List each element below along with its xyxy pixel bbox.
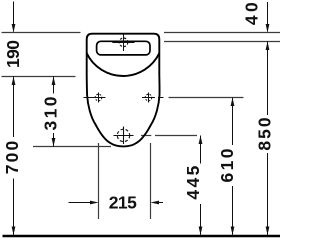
svg-text:190: 190: [3, 40, 23, 68]
dimension 700 (line + arrows + rotated label): [2, 77, 22, 236]
top reference line right: [164, 32, 280, 34]
dimension 190 (top arrow + rotated label): [3, 2, 23, 69]
rim level reference line left (190 below top): [2, 76, 76, 78]
dimension 445 (line + arrows + rotated label): [183, 136, 203, 236]
dimension 215 (extension lines + inward arrows + label): [69, 143, 164, 219]
ground line: [3, 235, 281, 238]
dimension 310 (line + arrows + rotated label): [40, 77, 60, 147]
basin bowl front edge arc: [87, 53, 160, 76]
fixing hole right: [142, 93, 164, 103]
inner flushing rim: [97, 41, 150, 55]
outlet crosshair: [114, 127, 134, 145]
svg-text:310: 310: [40, 96, 60, 130]
outlet centerline dashes: [141, 135, 151, 137]
dimension 610 (line + arrows + rotated label): [217, 98, 237, 236]
urinal body outline: [87, 34, 160, 147]
water inlet crosshair: [112, 34, 134, 51]
svg-text:610: 610: [217, 148, 237, 182]
svg-text:215: 215: [109, 192, 137, 212]
top reference line left (top of urinal): [2, 32, 81, 34]
svg-text:700: 700: [2, 140, 22, 174]
fixing-hole centerline extension right: [169, 97, 244, 99]
dimension 850 (line + arrows + rotated label): [254, 42, 274, 236]
urinal bottom tip reference line: [33, 146, 111, 148]
fixing hole left: [84, 93, 106, 103]
svg-text:445: 445: [183, 165, 203, 199]
dimension 40 (top-right, arrow above + rotated label): [242, 2, 270, 33]
svg-text:850: 850: [254, 117, 274, 151]
water inlet height reference line right: [164, 41, 280, 43]
